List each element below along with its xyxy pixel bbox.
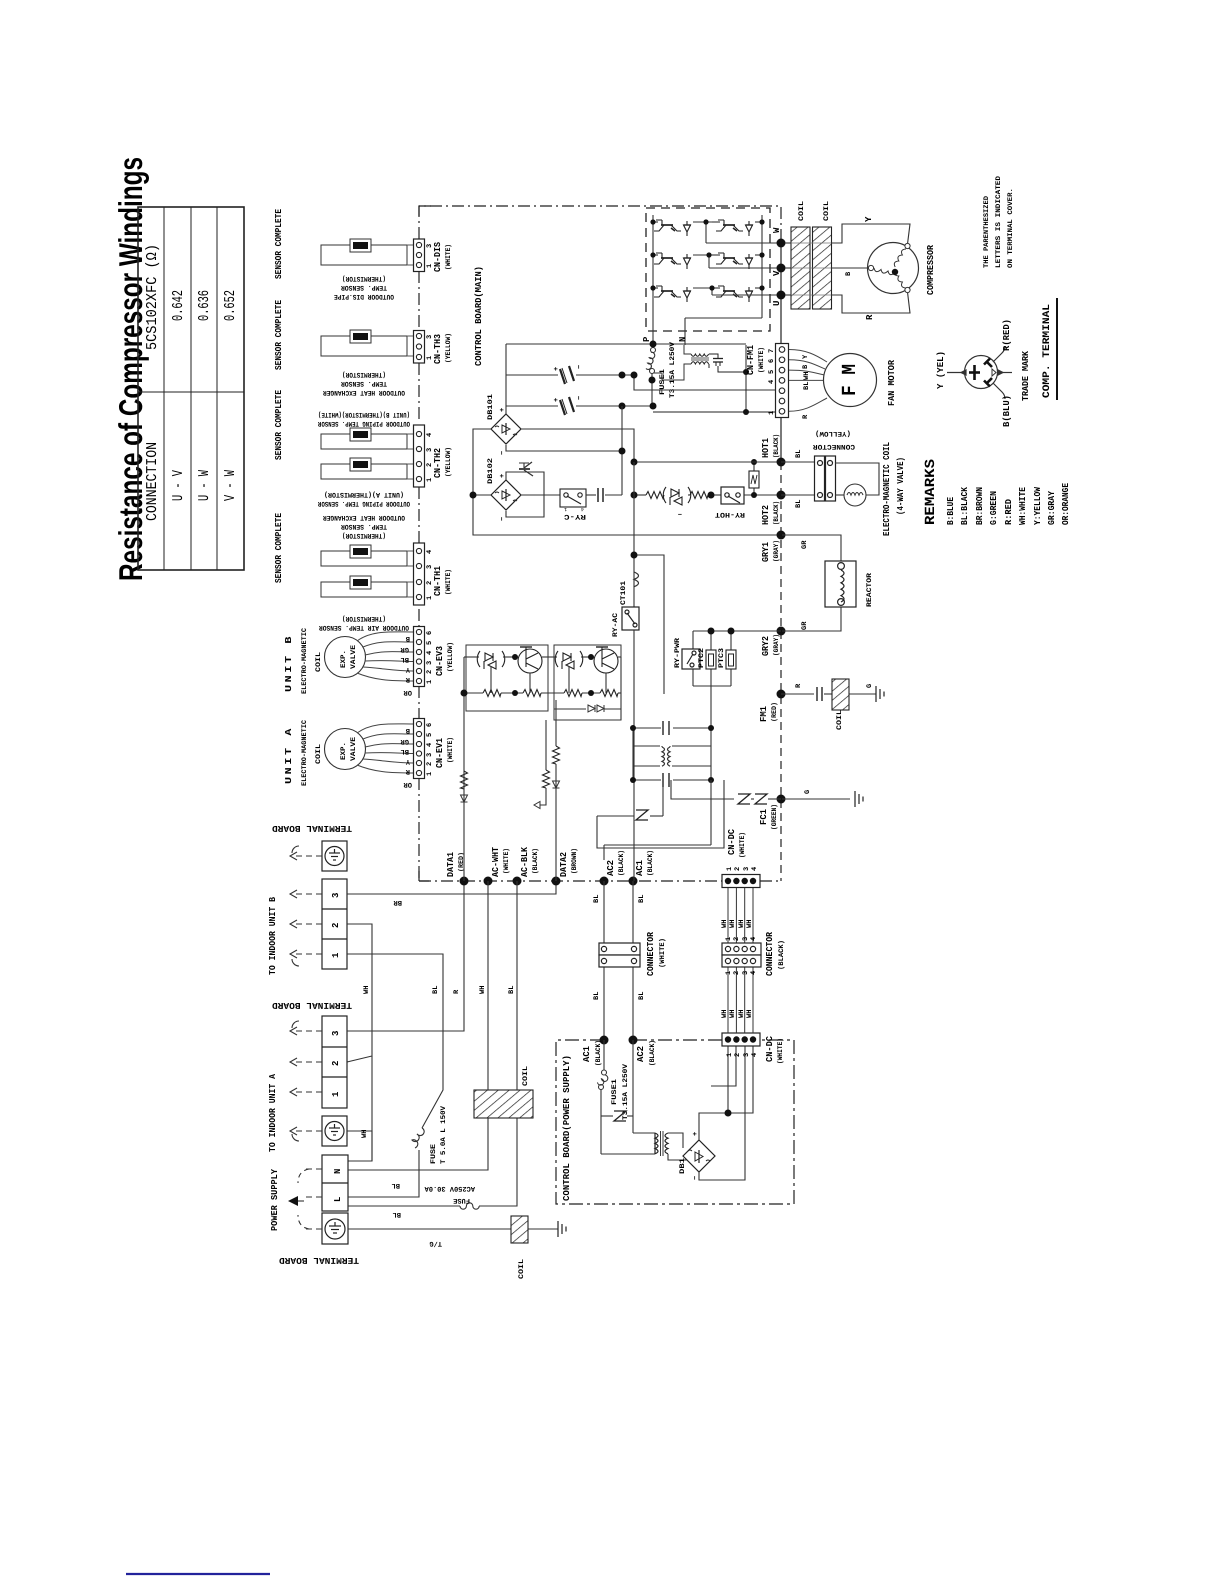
node DATA2 — [552, 877, 561, 886]
svg-text:(BLACK): (BLACK) — [594, 1040, 603, 1066]
svg-text:PTC2: PTC2 — [698, 648, 706, 668]
svg-text:COMP. TERMINAL: COMP. TERMINAL — [1042, 304, 1053, 398]
connector CN-DC (PS board) — [722, 1033, 785, 1064]
svg-text:4: 4 — [426, 433, 434, 437]
transistor Q6 — [716, 286, 753, 302]
svg-text:0.652: 0.652 — [222, 290, 239, 321]
svg-text:BR:BROWN: BR:BROWN — [975, 487, 985, 525]
node V — [777, 264, 786, 273]
svg-text:BL: BL — [393, 1210, 401, 1218]
diode pair cell 1 — [477, 651, 505, 669]
svg-text:OUTDOOR HEAT EXCHANGER: OUTDOOR HEAT EXCHANGER — [322, 388, 405, 396]
node AC-BLK — [513, 877, 522, 886]
svg-text:+: + — [553, 398, 561, 402]
fuse FUSE1 on PS board — [597, 1040, 608, 1116]
svg-text:3: 3 — [742, 937, 750, 941]
piping sensor loops (CN-TH2) — [321, 434, 414, 479]
svg-text:+: + — [499, 408, 507, 412]
svg-text:2: 2 — [331, 923, 341, 928]
bridge DB101 — [491, 414, 521, 444]
svg-text:RY-PWR: RY-PWR — [674, 637, 682, 668]
big hatched coil on AC-WHT/AC-BLK — [474, 1090, 533, 1118]
svg-text:CONNECTOR: CONNECTOR — [812, 442, 855, 450]
svg-text:COIL: COIL — [315, 744, 323, 764]
svg-text:OUTDOOR PIPING TEMP. SENSOR: OUTDOOR PIPING TEMP. SENSOR — [317, 419, 410, 427]
svg-text:(THERMISTOR): (THERMISTOR) — [342, 531, 386, 540]
svg-text:COIL: COIL — [522, 1066, 530, 1086]
svg-text:(UNIT A)(THERMISTOR): (UNIT A)(THERMISTOR) — [324, 490, 404, 499]
DB101 wiring — [473, 406, 782, 535]
svg-text:WH: WH — [738, 1010, 746, 1018]
svg-text:1: 1 — [726, 867, 734, 871]
svg-text:TO INDOOR UNIT A: TO INDOOR UNIT A — [268, 1073, 278, 1152]
svg-text:WH: WH — [479, 986, 487, 994]
svg-text:1: 1 — [726, 1053, 734, 1057]
svg-text:3: 3 — [743, 867, 751, 871]
HOT1 wire — [634, 461, 781, 463]
svg-text:−: − — [576, 365, 584, 369]
svg-text:BL: BL — [803, 382, 811, 390]
svg-text:G: G — [804, 790, 812, 794]
svg-text:COIL: COIL — [823, 201, 831, 221]
svg-text:2: 2 — [733, 971, 741, 975]
svg-text:U - W: U - W — [196, 470, 213, 501]
svg-text:GRY1: GRY1 — [761, 541, 771, 562]
svg-text:CN-FM1: CN-FM1 — [746, 344, 756, 375]
connector CN-EV3 — [414, 627, 456, 687]
svg-text:COMPRESSOR: COMPRESSOR — [926, 244, 936, 295]
svg-text:UNIT B: UNIT B — [284, 634, 294, 692]
svg-text:CN-EV3: CN-EV3 — [435, 646, 445, 676]
WH labels upper — [721, 920, 754, 928]
svg-text:EXP.: EXP. — [340, 742, 348, 760]
svg-text:L: L — [333, 1197, 343, 1202]
svg-text:5: 5 — [768, 370, 776, 374]
svg-text:RY-HOT: RY-HOT — [715, 510, 745, 518]
svg-text:5CS102XFC (Ω): 5CS102XFC (Ω) — [144, 244, 161, 350]
transformer on PS board — [655, 1131, 668, 1156]
svg-text:4: 4 — [751, 1053, 759, 1057]
ground terminal A — [322, 1116, 347, 1146]
resistor + diode on DATA1 drop — [461, 771, 468, 789]
svg-text:DB102: DB102 — [487, 458, 495, 484]
coil (hatched) 1 — [791, 227, 810, 309]
svg-text:(BLACK): (BLACK) — [531, 848, 540, 874]
svg-text:(THERMISTOR): (THERMISTOR) — [342, 614, 386, 623]
svg-text:WH:WHITE: WH:WHITE — [1018, 486, 1028, 525]
PTC3 — [726, 650, 736, 669]
ground wire T/G with coil to earth — [348, 1228, 558, 1230]
trade mark: comp terminal circle — [947, 346, 1012, 399]
svg-text:BL: BL — [593, 895, 601, 903]
node AC1 on PS board — [600, 1036, 609, 1045]
relay RY-AC — [622, 607, 639, 630]
exp valve A wires — [357, 724, 413, 773]
bridge DB1 — [683, 1140, 715, 1172]
svg-text:ON TERMINAL COVER.: ON TERMINAL COVER. — [1007, 188, 1015, 268]
node U — [777, 291, 786, 300]
wire B2 down (WH) — [347, 924, 372, 1062]
svg-text:(WHITE): (WHITE) — [658, 938, 667, 968]
svg-text:(YELLOW): (YELLOW) — [444, 333, 453, 363]
svg-text:WH: WH — [738, 920, 746, 928]
outdoor heat exchanger temp sensor loop (CN-TH3) — [321, 336, 414, 356]
wire FC1 left side + AC2 routing — [597, 780, 781, 860]
svg-text:ELECTRO-MAGNETIC COIL: ELECTRO-MAGNETIC COIL — [882, 442, 892, 536]
svg-text:DATA1: DATA1 — [446, 851, 456, 877]
svg-text:CONTROL BOARD(MAIN): CONTROL BOARD(MAIN) — [474, 266, 484, 366]
svg-text:4: 4 — [751, 867, 759, 871]
svg-text:6: 6 — [426, 723, 434, 727]
svg-text:RY-AC: RY-AC — [612, 613, 620, 637]
svg-text:R:RED: R:RED — [1004, 498, 1014, 525]
svg-text:FM1: FM1 — [759, 705, 769, 722]
svg-text:AC2: AC2 — [636, 1046, 646, 1062]
bridge DB102 — [491, 480, 521, 510]
svg-text:OR:ORANGE: OR:ORANGE — [1061, 482, 1071, 525]
svg-text:FUSE1: FUSE1 — [611, 1079, 619, 1105]
svg-text:DATA2: DATA2 — [559, 852, 569, 877]
node GRY1 — [777, 531, 786, 540]
svg-text:BL: BL — [392, 1181, 400, 1189]
svg-text:1: 1 — [331, 952, 341, 958]
svg-text:BL: BL — [795, 500, 803, 508]
small hatched coil on T/G — [511, 1216, 528, 1243]
svg-text:BL:BLACK: BL:BLACK — [960, 486, 970, 525]
terminal block A cells 3/2/1 — [322, 1016, 347, 1108]
svg-text:(4-WAY VALVE): (4-WAY VALVE) — [896, 457, 906, 515]
wires CN-DC down — [728, 888, 753, 1033]
FC1 to ground — [782, 798, 850, 800]
svg-text:WH: WH — [363, 986, 371, 994]
node FC1 — [777, 795, 786, 804]
svg-text:WH: WH — [361, 1130, 369, 1138]
node AC2 — [600, 877, 609, 886]
inductor Z on AC2 line — [636, 810, 648, 820]
svg-text:WH: WH — [729, 1010, 737, 1018]
svg-text:R(RED): R(RED) — [1002, 319, 1012, 351]
svg-text:(GREEN): (GREEN) — [770, 804, 779, 830]
svg-text:WH: WH — [746, 920, 754, 928]
svg-text:2: 2 — [733, 937, 741, 941]
svg-text:R: R — [865, 314, 875, 320]
svg-text:VALVE: VALVE — [350, 645, 358, 669]
svg-text:REMARKS: REMARKS — [923, 459, 939, 525]
svg-text:CONNECTOR: CONNECTOR — [765, 931, 775, 976]
svg-text:TEMP. SENSOR: TEMP. SENSOR — [340, 379, 387, 387]
fan motor wires — [789, 350, 827, 412]
svg-text:POWER SUPPLY: POWER SUPPLY — [270, 1168, 280, 1231]
svg-text:1: 1 — [725, 937, 733, 941]
block B left leg with resistor — [545, 720, 547, 770]
coil (hatched) 2 — [813, 227, 832, 309]
wires HOT1/HOT2 to connector — [781, 462, 815, 495]
wire color labels A (180deg) — [400, 726, 412, 788]
svg-text:ELECTRO-MAGNETIC: ELECTRO-MAGNETIC — [301, 628, 309, 694]
svg-text:4: 4 — [750, 937, 758, 941]
svg-text:WH: WH — [803, 372, 811, 380]
svg-text:DB101: DB101 — [487, 394, 495, 420]
svg-text:(THERMISTOR): (THERMISTOR) — [342, 370, 386, 379]
dashed pigtails B — [296, 856, 322, 954]
svg-text:VALVE: VALVE — [350, 737, 358, 761]
svg-text:CN-TH1: CN-TH1 — [433, 565, 443, 596]
transistor cell 2 — [594, 647, 618, 673]
svg-text:SENSOR COMPLETE: SENSOR COMPLETE — [274, 389, 284, 460]
connector CN-TH3 — [414, 331, 454, 365]
svg-text:OR: OR — [403, 780, 412, 788]
svg-text:0.636: 0.636 — [196, 290, 213, 321]
node W — [777, 239, 786, 248]
wire A3 to DATA1 — [347, 881, 464, 1031]
svg-text:WH: WH — [721, 1010, 729, 1018]
svg-text:CN-DIS: CN-DIS — [433, 241, 443, 272]
capacitor C2 rail — [506, 405, 653, 407]
svg-text:(WHITE): (WHITE) — [444, 244, 453, 270]
svg-text:FUSE: FUSE — [430, 1144, 438, 1164]
thermistors on TH2 sensors — [350, 428, 371, 441]
L wire 2 with main fuse — [348, 1118, 517, 1209]
svg-text:0.642: 0.642 — [170, 290, 187, 321]
svg-text:WH: WH — [746, 1010, 754, 1018]
svg-text:(WHITE): (WHITE) — [502, 848, 511, 874]
AC1 wire down — [633, 630, 635, 881]
relay RY-PWR — [682, 649, 700, 669]
svg-text:1: 1 — [564, 506, 567, 512]
svg-text:(BLACK): (BLACK) — [617, 850, 626, 876]
thermistor on TH3 sensor — [350, 330, 371, 343]
N wire to coil — [348, 1118, 488, 1170]
svg-text:B(BLU): B(BLU) — [1002, 395, 1012, 427]
capacitor C1 (hatched electrolytic) — [560, 366, 574, 384]
svg-text:AC-WHT: AC-WHT — [491, 846, 501, 877]
svg-text:5: 5 — [426, 641, 434, 645]
svg-text:BL: BL — [508, 986, 516, 994]
svg-text:(WHITE): (WHITE) — [446, 737, 455, 763]
wires AC2/AC1 down with 2-pin connector — [604, 881, 633, 1040]
svg-text:OR: OR — [403, 688, 412, 696]
svg-text:(WHITE): (WHITE) — [757, 347, 766, 373]
svg-text:(UNIT B)(THERMISTOR)(WHITE): (UNIT B)(THERMISTOR)(WHITE) — [318, 410, 410, 419]
capacitor/choke EMI filter wires — [633, 694, 711, 787]
svg-text:TRADE MARK: TRADE MARK — [1021, 350, 1031, 401]
svg-text:COIL: COIL — [836, 710, 844, 730]
svg-text:3: 3 — [742, 971, 750, 975]
svg-text:RY-C: RY-C — [564, 512, 586, 520]
N/L terminal block — [322, 1155, 348, 1211]
svg-text:4: 4 — [768, 380, 776, 384]
svg-text:U: U — [772, 301, 782, 306]
svg-text:CONTROL BOARD(POWER SUPPLY): CONTROL BOARD(POWER SUPPLY) — [562, 1055, 572, 1201]
connector pair (white) 2-pin — [599, 943, 640, 967]
svg-text:3: 3 — [743, 1053, 751, 1057]
svg-text:6: 6 — [426, 631, 434, 635]
svg-text:(YELLOW): (YELLOW) — [444, 447, 453, 477]
exp valve B wires — [357, 632, 413, 681]
connector CN-TH1 — [414, 543, 454, 605]
svg-text:BR: BR — [393, 898, 402, 906]
svg-text:1: 1 — [426, 680, 434, 684]
svg-text:COIL: COIL — [315, 652, 323, 672]
power supply arrow — [288, 1196, 298, 1206]
svg-text:BL: BL — [593, 992, 601, 1000]
diode pair cell 2 — [555, 651, 583, 669]
thermistors on TH1 sensors — [350, 545, 371, 558]
svg-text:P: P — [642, 336, 652, 342]
svg-text:GR: GR — [801, 540, 809, 549]
svg-text:(THERMISTOR): (THERMISTOR) — [342, 274, 386, 283]
svg-text:GRY2: GRY2 — [761, 636, 771, 656]
L wire 1 (BL) to fuse T5.0A — [348, 1196, 417, 1198]
svg-text:U - V: U - V — [170, 470, 187, 501]
svg-text:WH: WH — [729, 920, 737, 928]
node HOT2 — [777, 491, 786, 500]
svg-text:SENSOR COMPLETE: SENSOR COMPLETE — [274, 512, 284, 583]
WH labels lower — [721, 1010, 754, 1018]
svg-text:1: 1 — [768, 411, 776, 415]
svg-text:TERMINAL BOARD: TERMINAL BOARD — [278, 1255, 359, 1265]
P rail — [506, 344, 746, 414]
terminal block B cells 3/2/1 — [322, 879, 347, 969]
svg-text:2: 2 — [734, 867, 742, 871]
svg-text:4: 4 — [426, 651, 434, 655]
transistor Q5 — [716, 253, 753, 269]
dashed pigtails A — [296, 1031, 322, 1131]
compressor circle — [868, 243, 919, 294]
svg-text:(BROWN): (BROWN) — [570, 848, 579, 874]
svg-text:TERMINAL BOARD: TERMINAL BOARD — [271, 823, 352, 833]
svg-text:1: 1 — [725, 971, 733, 975]
svg-text:(RED): (RED) — [770, 702, 779, 722]
DB102 wiring + pass transistor — [473, 462, 560, 517]
svg-text:FAN MOTOR: FAN MOTOR — [887, 359, 897, 406]
svg-text:(BLACK): (BLACK) — [646, 850, 655, 876]
svg-text:COIL: COIL — [518, 1259, 526, 1279]
control board main boundary — [419, 206, 781, 881]
svg-text:GR: GR — [801, 621, 809, 630]
connector pair (black) 4-pin — [722, 943, 761, 967]
inverter buses — [653, 215, 781, 345]
svg-text:−: − — [678, 509, 682, 517]
block A outline — [466, 645, 548, 711]
ground terminal B — [322, 841, 347, 871]
small diodes row in block B — [588, 705, 595, 712]
svg-text:G:GREEN: G:GREEN — [989, 491, 999, 525]
node FM1 — [777, 690, 786, 699]
svg-text:N: N — [333, 1169, 343, 1174]
svg-text:CN-TH2: CN-TH2 — [433, 448, 443, 478]
connector CN-FM1 — [746, 344, 789, 418]
svg-text:BL: BL — [795, 450, 803, 458]
resistor row — [464, 657, 621, 881]
power ground terminal — [322, 1213, 348, 1244]
svg-text:1: 1 — [331, 1091, 341, 1097]
transistor Q4 — [716, 220, 753, 236]
connector CN-EV1 — [414, 719, 456, 779]
svg-text:T/G: T/G — [429, 1239, 442, 1248]
fan motor FM circle — [824, 354, 877, 407]
svg-text:B:BLUE: B:BLUE — [946, 496, 956, 525]
svg-text:V - W: V - W — [222, 470, 239, 501]
wire AC-WHT down — [487, 881, 489, 1090]
capacitor after RY-C — [586, 488, 622, 502]
Z filter on PS board — [614, 1111, 626, 1121]
svg-text:V: V — [772, 270, 782, 276]
svg-text:4: 4 — [426, 743, 434, 747]
node DATA1 — [460, 877, 469, 886]
svg-text:(BLACK): (BLACK) — [777, 940, 786, 970]
svg-text:BL: BL — [401, 747, 409, 755]
node GRY2 — [777, 627, 786, 636]
svg-text:OUTDOOR DIS.PIPE: OUTDOOR DIS.PIPE — [334, 292, 394, 300]
svg-text:2: 2 — [426, 762, 434, 766]
svg-text:(WHITE): (WHITE) — [738, 832, 747, 858]
inductor Z2 on FC1 line — [755, 794, 767, 804]
svg-text:HOT2: HOT2 — [761, 505, 771, 525]
wire A-ground to WH line — [347, 1056, 372, 1161]
svg-text:BL: BL — [401, 655, 409, 663]
svg-text:W: W — [772, 227, 782, 233]
svg-text:Y:YELLOW: Y:YELLOW — [1033, 486, 1043, 525]
svg-text:GR:GRAY: GR:GRAY — [1047, 490, 1057, 525]
svg-text:WH: WH — [721, 920, 729, 928]
svg-text:(RED): (RED) — [457, 852, 466, 872]
svg-text:2: 2 — [734, 1053, 742, 1057]
ground symbol — [558, 1221, 566, 1237]
outdoor dis.pipe temp sensor loop — [321, 245, 414, 265]
transistor Q1 — [654, 220, 691, 236]
cap rail junction dots — [619, 372, 626, 379]
svg-text:3: 3 — [331, 893, 341, 898]
svg-text:PTC3: PTC3 — [718, 648, 726, 668]
svg-text:2: 2 — [426, 670, 434, 674]
svg-text:HOT1: HOT1 — [761, 437, 771, 458]
svg-text:LETTERS IS INDICATED: LETTERS IS INDICATED — [995, 176, 1003, 268]
svg-text:3: 3 — [331, 1031, 341, 1036]
svg-text:CONNECTOR: CONNECTOR — [646, 931, 656, 976]
svg-text:CN-EV1: CN-EV1 — [435, 737, 445, 768]
transistor cell 1 — [518, 647, 542, 673]
svg-text:+: + — [553, 367, 561, 371]
fan wire labels — [802, 354, 811, 419]
switching PSU transformer — [653, 345, 776, 412]
node AC1 — [629, 877, 638, 886]
DB1 wiring to CN-DC — [699, 1046, 753, 1180]
svg-text:TERMINAL BOARD: TERMINAL BOARD — [271, 1000, 352, 1010]
GRY1/GRY2 to reactor — [782, 535, 841, 631]
svg-text:SENSOR COMPLETE: SENSOR COMPLETE — [274, 208, 284, 279]
wires through coils to compressor — [785, 224, 910, 313]
svg-text:OUTDOOR PIPING TEMP. SENSOR: OUTDOOR PIPING TEMP. SENSOR — [317, 499, 410, 507]
svg-text:OUTDOOR HEAT EXCHANGER: OUTDOOR HEAT EXCHANGER — [322, 513, 405, 521]
thermistor on dis.pipe sensor — [350, 239, 371, 252]
svg-text:(YELLOW): (YELLOW) — [446, 642, 455, 672]
power supply dashed pigtails + brace — [298, 1169, 322, 1229]
CT101 + RY-AC line — [634, 462, 664, 694]
compressor windings — [868, 243, 910, 292]
wire color labels B (180deg) — [400, 634, 412, 696]
svg-text:TEMP. SENSOR: TEMP. SENSOR — [340, 522, 387, 530]
connector CN-DC (main board) — [722, 828, 760, 887]
svg-text:REACTOR: REACTOR — [866, 572, 874, 607]
svg-text:1: 1 — [426, 772, 434, 776]
svg-text:OUTDOOR AIR TEMP. SENSOR: OUTDOOR AIR TEMP. SENSOR — [318, 623, 409, 631]
svg-text:CONNECTION: CONNECTION — [144, 442, 161, 521]
footer blue line — [126, 1573, 270, 1575]
svg-text:EXP.: EXP. — [340, 650, 348, 668]
svg-text:AC2: AC2 — [606, 860, 616, 876]
air temp sensor loops (CN-TH1) — [321, 551, 414, 597]
